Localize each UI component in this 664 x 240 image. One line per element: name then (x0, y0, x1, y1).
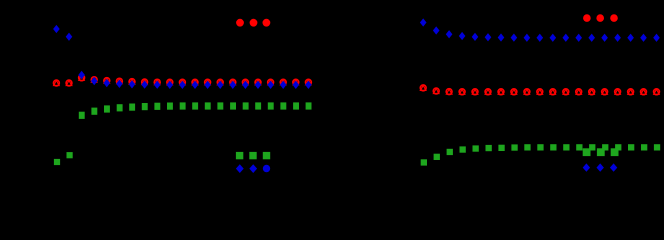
left panel blue diamond series (53, 25, 312, 89)
right panel blue diamond series (420, 18, 660, 42)
left panel bottom legend: two blue diamonds and one blue circle (236, 164, 270, 173)
right panel green square series (421, 144, 661, 165)
left panel bottom legend: three green squares (236, 152, 270, 159)
left panel red open-triangle series (54, 75, 312, 85)
left panel top legend: three filled red circles (236, 19, 270, 27)
right panel top legend: three filled red circles (583, 14, 618, 22)
right panel bottom legend: three blue diamonds (583, 163, 618, 171)
right panel red open-triangle series (420, 85, 659, 94)
right panel bottom legend: three green squares (583, 148, 619, 156)
left panel red open-circle series (54, 75, 312, 86)
left panel green square series (54, 102, 312, 165)
right panel red open-circle series (420, 85, 659, 95)
